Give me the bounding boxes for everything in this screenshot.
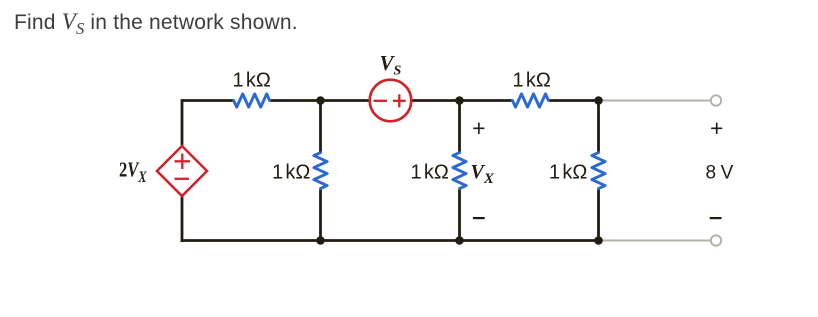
node F (bottom x=598.5) <box>594 236 603 245</box>
svg-text:1kΩ: 1kΩ <box>233 70 271 92</box>
svg-text:1kΩ: 1kΩ <box>513 70 551 92</box>
label 2Vx <box>119 159 147 187</box>
wire: bottom rail <box>181 239 599 242</box>
resistor R5 1kOhm vertical at x=598.5 <box>592 153 605 189</box>
wire: middle vertical 2 at x=459.5 <box>458 101 461 154</box>
node D (bottom x=320.5) <box>316 236 325 245</box>
title text <box>14 9 298 38</box>
terminal top (open circle) <box>711 95 721 105</box>
svg-text:VS: VS <box>380 51 402 79</box>
label Vx minus <box>473 217 485 219</box>
node E (bottom x=459.5) <box>455 236 464 245</box>
wire: top rail resistor to node C <box>549 99 599 102</box>
voltage source Vs (circle) <box>370 80 412 122</box>
wire: gray lead top to terminal <box>599 100 711 102</box>
svg-text:Find VS in the network shown.: Find VS in the network shown. <box>14 9 298 38</box>
label 8V minus <box>710 217 722 219</box>
wire: gray lead bottom to terminal <box>599 240 711 242</box>
wire: Vs circle to node B <box>412 99 513 102</box>
svg-text:1kΩ: 1kΩ <box>549 162 587 184</box>
svg-text:+: + <box>472 115 485 141</box>
wire: top rail left section (left corner to node A) <box>182 101 234 243</box>
terminal bottom (open circle) <box>711 235 721 245</box>
wire: top rail node A to Vs circle <box>270 99 370 102</box>
resistor R3 1kOhm vertical at x=320.5 <box>314 153 327 189</box>
resistor R4 1kOhm vertical at x=459.5 (Vx) <box>453 153 466 189</box>
svg-text:1kΩ: 1kΩ <box>411 162 449 184</box>
svg-text:VX: VX <box>471 161 495 187</box>
wire: right vertical at x=598.5 <box>597 101 600 154</box>
svg-text:+: + <box>710 115 723 141</box>
node B (top x=459.5) <box>455 96 464 105</box>
resistor R2 1kOhm top-right <box>513 94 549 107</box>
node A (top x=320.5) <box>316 96 325 105</box>
svg-text:2VX: 2VX <box>119 159 147 187</box>
wire: middle vertical 1 upper/lower at x=320.5 <box>319 101 322 154</box>
node C (top x=598.5) <box>594 96 603 105</box>
svg-text:1kΩ: 1kΩ <box>272 162 310 184</box>
svg-text:8V: 8V <box>706 163 734 184</box>
dependent source 2Vx (diamond) <box>157 146 207 196</box>
resistor R1 1kOhm top-left <box>234 94 270 107</box>
